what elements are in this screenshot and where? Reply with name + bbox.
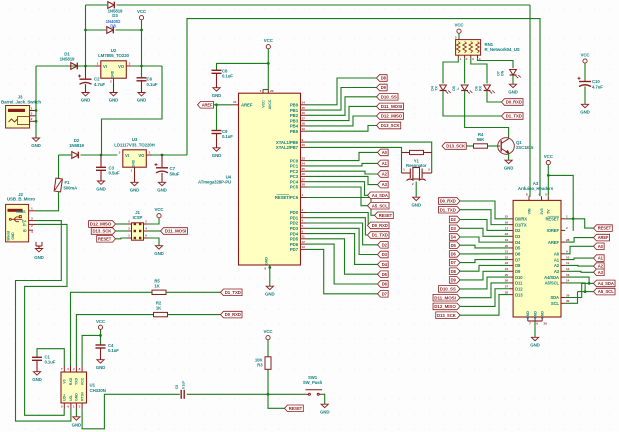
svg-text:17: 17 [302,116,306,120]
label A5_SCL mid [368,202,390,209]
ground C6 [138,93,145,96]
label D12_MISO header [433,303,460,310]
svg-text:RTS#: RTS# [80,392,84,401]
svg-text:PD3: PD3 [290,226,299,231]
wire A3 gnd [534,321,536,337]
ground SW1 [321,404,328,407]
svg-text:12: 12 [302,240,306,244]
svg-text:AREF: AREF [202,102,213,107]
wires PB to SPI labels [307,78,377,105]
svg-text:AREF: AREF [241,103,253,108]
svg-text:VI: VI [103,64,107,69]
svg-text:12: 12 [566,267,570,271]
svg-text:D4: D4 [382,262,388,267]
label D0_RXD header [438,198,460,205]
svg-text:0.1uF: 0.1uF [147,82,158,87]
wire LED L to Q1 collector [465,91,509,139]
wire A5/SCL + SCL merge [565,283,585,292]
svg-text:11: 11 [302,235,305,239]
svg-text:RESET: RESET [545,217,559,222]
svg-text:A5/SCL: A5/SCL [545,281,560,286]
label D13_SCK icsp [91,228,115,235]
svg-text:GND: GND [504,166,514,171]
svg-text:10: 10 [302,143,306,147]
svg-text:29: 29 [566,293,570,297]
svg-text:D9: D9 [515,269,521,274]
svg-text:0.5uF: 0.5uF [109,171,120,176]
svg-text:26: 26 [505,279,509,283]
svg-text:U4: U4 [226,174,232,179]
svg-text:GND: GND [111,70,115,78]
svg-text:GND: GND [580,110,590,115]
wire AREF [214,104,233,106]
label D2 mid [378,242,389,249]
svg-text:A2: A2 [554,263,560,268]
svg-text:UD-: UD- [69,394,73,401]
wires PC/PD to labels [307,152,378,160]
svg-text:28: 28 [302,183,306,187]
svg-text:VCC: VCC [137,9,147,14]
label D9 header [449,277,460,284]
svg-text:PB5: PB5 [290,129,299,134]
svg-text:PD2: PD2 [290,221,299,226]
svg-text:A4/SDA: A4/SDA [544,275,559,280]
label D9 [377,84,388,91]
ground C8 [213,88,220,91]
label D12_MISO [377,113,404,120]
label D10_SS [377,94,399,101]
ground LED ON [512,75,514,84]
svg-text:D3: D3 [515,234,521,239]
svg-text:VCC: VCC [580,53,590,58]
label AREF [198,102,214,109]
svg-text:0.1uF: 0.1uF [222,74,233,79]
svg-text:Barrel_Jack_Switch: Barrel_Jack_Switch [1,99,41,104]
svg-text:VIN: VIN [527,208,531,214]
svg-text:A4_SDA: A4_SDA [598,281,614,286]
svg-text:D4: D4 [451,235,457,240]
svg-text:D13_SCK: D13_SCK [437,313,456,318]
wire 3V3 long route to header [187,19,540,197]
label A4_SDA header [594,280,616,287]
svg-text:23: 23 [302,156,306,160]
svg-text:D13: D13 [515,292,523,297]
label D8 [377,75,388,82]
svg-text:C7: C7 [170,166,176,171]
LED D5 L [461,85,468,91]
svg-text:D0_RXD: D0_RXD [440,199,456,204]
svg-text:VCC: VCC [544,154,554,159]
resistor R2 1K RX line [76,315,153,366]
svg-text:D10_SS: D10_SS [381,94,397,99]
svg-text:1N5819: 1N5819 [60,57,75,62]
wire to RESET label [268,394,285,408]
svg-text:PC0: PC0 [290,158,299,163]
svg-text:D4: D4 [515,240,521,245]
svg-text:GND: GND [154,251,164,256]
svg-text:CH330N: CH330N [90,388,106,393]
svg-text:RESET: RESET [598,226,612,231]
resistor network RN1 R_Network04_US [456,40,481,56]
label A4_SDA mid [368,192,390,199]
svg-text:RESET: RESET [98,236,112,241]
svg-text:18: 18 [505,232,509,236]
svg-text:50uF: 50uF [170,171,180,176]
wire USB D+ to CH330 UD- [16,221,71,422]
label D1_TXD header [438,206,460,213]
label A0 mid [378,149,389,156]
svg-text:A1: A1 [382,161,388,166]
svg-text:D2: D2 [382,242,388,247]
ground C1 [33,372,40,375]
capacitor C8 0.1uF [217,63,269,70]
svg-text:20: 20 [270,89,274,93]
label RESET icsp [97,236,116,243]
wire A3 RESET to label [565,219,593,228]
svg-text:25: 25 [302,167,306,171]
svg-text:D8: D8 [451,269,457,274]
svg-text:C5: C5 [175,385,179,390]
capacitor C1 0.1uF on V3 [37,349,64,366]
label D11_MOSI [377,103,404,110]
svg-text:A1: A1 [598,256,604,261]
svg-text:VCC: VCC [154,207,164,212]
svg-text:XTAL1/PB6: XTAL1/PB6 [276,140,299,145]
svg-text:14: 14 [566,279,570,283]
label D5 header [449,242,460,249]
svg-text:SW_Push: SW_Push [303,380,323,385]
svg-text:PC4: PC4 [290,179,299,184]
label A3 mid [378,181,389,188]
svg-text:Q1: Q1 [516,140,522,145]
fuse F1 500mA [58,155,60,179]
svg-text:GND: GND [96,365,106,370]
wire CH330 VCC branch [82,335,100,366]
svg-text:D13_SCK: D13_SCK [446,144,465,149]
wire to R4 [467,145,474,147]
svg-text:GND: GND [320,410,330,415]
diode D8 1N4002 [86,29,107,31]
svg-text:10: 10 [566,255,570,259]
wire XTAL1 [307,142,432,173]
svg-text:500mA: 500mA [64,186,78,191]
svg-text:D10: D10 [515,275,523,280]
svg-text:GND: GND [31,143,41,148]
svg-text:30: 30 [566,299,570,303]
wire LED TX to label [443,91,502,117]
wire VIN from top rail [529,5,530,196]
wire VCC rail to U3 input [102,66,163,155]
svg-text:ATmega328P-PU: ATmega328P-PU [198,180,231,185]
label D13_SCK header [436,312,460,319]
label D6 mid [378,281,389,288]
svg-text:D1_TXD: D1_TXD [506,114,522,119]
ground CH330 GND pin [75,409,77,417]
ICSP header J1 [132,223,144,240]
svg-text:ON: ON [501,70,505,76]
svg-text:15: 15 [302,106,306,110]
ground C7 [158,182,165,185]
regulator U3 LD1117V33_TO220H [123,150,147,167]
ground icsp [148,238,160,246]
svg-text:PD5: PD5 [290,237,299,242]
svg-text:VCC: VCC [454,23,464,28]
regulator U2 LM7805_TO220 [101,61,127,78]
resonator Y1 [402,152,410,154]
svg-text:U1: U1 [90,383,96,388]
label A2 header [594,263,605,270]
svg-text:RESET/PC6: RESET/PC6 [275,195,299,200]
resistor R5 1K TX line [71,292,153,366]
label D3 mid [378,251,389,258]
A3 right pins [561,218,565,220]
svg-text:IOREF: IOREF [547,228,560,233]
svg-text:A3: A3 [554,269,560,274]
svg-text:PC5: PC5 [290,185,299,190]
ground C9 [213,148,220,151]
svg-text:AVCC: AVCC [268,99,272,109]
label D12_MISO icsp [89,221,116,228]
svg-text:D12_MISO: D12_MISO [381,114,403,119]
svg-text:A0: A0 [382,150,388,155]
label D7 mid [378,291,389,298]
svg-text:0.1uF: 0.1uF [182,381,186,389]
ground Q1 emitter [508,153,510,160]
svg-text:D5: D5 [515,246,521,251]
IC U1 CH330N [61,372,87,403]
svg-text:A3: A3 [598,270,604,275]
wire A2 [565,264,593,267]
label RESET bottom [285,405,304,412]
label D1_TXD mid [368,232,390,239]
svg-text:D11: D11 [515,281,523,286]
wire SW1 to ground [322,394,325,404]
svg-text:1N5819: 1N5819 [69,143,84,148]
ground C3 [97,181,104,184]
svg-text:4.7uF: 4.7uF [592,84,603,89]
svg-text:D7: D7 [451,260,457,265]
svg-text:GND: GND [411,203,421,208]
wire LED RX to label [487,91,502,103]
svg-text:D12_MISO: D12_MISO [90,222,112,227]
svg-text:RXD: RXD [69,377,73,385]
svg-text:VBUS: VBUS [16,210,26,214]
label D6 header [449,251,460,258]
svg-text:28: 28 [566,238,570,242]
svg-text:GND: GND [530,343,540,348]
label D7 header [449,259,460,266]
svg-text:D3: D3 [112,13,118,18]
label A1 header [594,255,605,262]
svg-text:VO: VO [138,153,145,158]
svg-text:ICSP: ICSP [133,215,143,220]
svg-text:17: 17 [505,226,509,230]
power symbol VCC CH330 [98,325,102,329]
svg-text:GND: GND [34,255,44,260]
svg-text:D7: D7 [515,257,521,262]
svg-text:UD+: UD+ [63,394,67,401]
label D11_MOSI icsp [148,230,161,232]
wire R2 to label [168,314,221,316]
label D3 header [449,225,460,232]
power symbol VCC main [139,16,143,20]
svg-text:AREF: AREF [598,235,609,240]
svg-text:27: 27 [505,285,509,289]
node after D1 / capacitor C2 4.7uF [84,65,87,68]
svg-text:VCC: VCC [96,319,106,324]
svg-text:16: 16 [302,111,306,115]
A3 left pins [509,218,513,220]
wire USB D- to CH330 UD+ [25,224,67,415]
svg-text:F1: F1 [65,180,71,185]
svg-text:VCC: VCC [264,38,274,43]
svg-text:4.7uF: 4.7uF [94,82,105,87]
svg-text:A5_SCL: A5_SCL [372,203,389,208]
svg-text:SDA: SDA [550,295,559,300]
svg-text:D9: D9 [381,85,387,90]
svg-text:A0: A0 [554,252,560,257]
capacitor C10 4.7uF [583,59,587,63]
svg-text:D8: D8 [515,263,521,268]
svg-text:GND: GND [72,423,82,428]
label D0_RXD mid [368,222,390,229]
ground C10 [581,104,588,107]
svg-text:RESET: RESET [379,213,393,218]
capacitor C5 0.1uF series [181,390,184,399]
LED D4 TX [440,85,447,91]
svg-text:LM7805_TO220: LM7805_TO220 [98,53,129,58]
label D0_RXD [221,311,243,318]
svg-text:D0_RXD: D0_RXD [372,223,388,228]
svg-text:2SC1815: 2SC1815 [516,145,534,150]
svg-text:GND: GND [265,257,269,265]
svg-text:D10_SS: D10_SS [440,287,456,292]
svg-text:D11_MOSI: D11_MOSI [165,229,186,234]
svg-text:D6: D6 [515,251,521,256]
wire A0 [565,246,593,254]
svg-text:GND: GND [157,187,167,192]
svg-text:A2: A2 [598,264,604,269]
ground U3 [134,172,136,182]
resistor R3 10K [265,357,271,370]
svg-text:20: 20 [505,244,509,248]
wire F1 to VBUS [36,192,59,211]
svg-text:PB4: PB4 [290,124,299,129]
A3 top power pins [528,196,530,200]
ground C2 [82,93,89,96]
power symbol VCC reset pullup [266,336,270,340]
svg-text:A5_SCL: A5_SCL [598,289,615,294]
svg-text:28: 28 [505,290,509,294]
A3 bottom ground pins [527,317,529,321]
ground MCU [269,265,271,286]
ground J3 [32,138,39,141]
label D2 header [449,216,460,223]
label A0 header [594,243,605,250]
power symbol VCC 5V header [546,161,550,165]
svg-text:A4_SDA: A4_SDA [372,193,388,198]
svg-text:D1_TXD: D1_TXD [440,207,456,212]
svg-text:LD1117V33_TO220H: LD1117V33_TO220H [114,142,155,147]
svg-text:D1_TXD: D1_TXD [225,290,241,295]
ground C4 [97,360,104,363]
wire C5 to reset net [187,393,306,395]
svg-text:PB2: PB2 [290,113,299,118]
svg-text:29: 29 [544,321,548,325]
wire XTAL2 [307,147,402,173]
svg-text:13: 13 [566,273,570,277]
capacitor C7 50uF [161,155,163,167]
svg-text:GND: GND [212,93,222,98]
svg-text:V3: V3 [63,379,67,383]
label A1 mid [378,160,389,167]
ground A3 [531,337,538,340]
label D13_SCK to Q1 [442,143,466,150]
svg-text:D6: D6 [451,252,457,257]
svg-text:D1/TX: D1/TX [515,222,527,227]
svg-text:0.1uF: 0.1uF [108,348,119,353]
wire U2 output [132,65,162,67]
header A3 Arduino_Headers body [513,200,561,317]
svg-text:24: 24 [302,162,306,166]
svg-text:XTAL2/PB7: XTAL2/PB7 [276,145,299,150]
svg-text:GND: GND [81,98,91,103]
label RESET mid [375,212,394,219]
wire CH330 RTS to C5 [82,394,180,429]
wire A3 AREF to label [565,238,593,243]
capacitor C6 0.1uF [141,66,143,78]
svg-text:D9: D9 [451,278,457,283]
svg-text:R_Network04_US: R_Network04_US [485,47,520,52]
label A2 mid [378,171,389,178]
MCU U4 ATmega328P-PU body [239,93,301,265]
wire R4 to Q1 base [488,145,501,147]
wire RN1 pin4 to LED ON [478,58,514,68]
svg-text:PB0: PB0 [290,103,299,108]
svg-text:24: 24 [505,267,509,271]
svg-text:D3: D3 [451,226,457,231]
svg-text:U3: U3 [132,137,138,142]
svg-text:3V3: 3V3 [540,208,544,214]
svg-text:23: 23 [505,261,509,265]
svg-text:21: 21 [505,250,509,254]
svg-text:GND: GND [541,311,545,319]
label RESET header [594,225,613,232]
svg-text:19: 19 [505,238,509,242]
svg-text:D12_MISO: D12_MISO [434,304,456,309]
svg-text:25: 25 [505,273,509,277]
svg-text:AREF: AREF [548,240,560,245]
label D11_MOSI header [433,294,460,301]
wire RN1 pin2 to LED L [464,58,466,83]
svg-text:PB3: PB3 [290,118,299,123]
wire RN1 pin1 to LED TX [443,58,458,83]
wire R5 to label [166,291,221,293]
svg-text:D3: D3 [382,252,388,257]
MCU port pins [301,104,307,106]
svg-text:GND: GND [132,159,136,167]
wire input rail [36,65,96,67]
svg-text:A2: A2 [382,172,388,177]
svg-text:GND: GND [526,311,530,319]
svg-text:A3: A3 [382,182,388,187]
label D5 mid [378,271,389,278]
svg-text:0.1uF: 0.1uF [45,360,56,365]
resistor R4 56K [474,144,488,148]
svg-text:0.1uF: 0.1uF [222,134,233,139]
svg-text:VCC: VCC [263,329,273,334]
label D0_RXD led [502,99,524,106]
